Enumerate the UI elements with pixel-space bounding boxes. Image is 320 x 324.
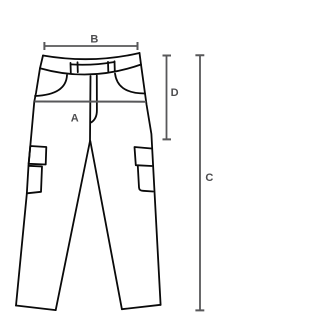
right cargo pocket body (138, 166, 153, 192)
dimension line D (166, 56, 168, 140)
right outer seam (140, 53, 161, 305)
svg-text:A: A (71, 113, 79, 125)
left front pocket curve (35, 75, 67, 96)
waistband top edge (43, 53, 140, 59)
waistband bottom edge (40, 65, 141, 75)
right cargo pocket flap (135, 147, 152, 166)
left cargo pocket body (27, 166, 42, 194)
svg-text:B: B (90, 33, 98, 45)
svg-text:C: C (205, 172, 213, 184)
left belt loop (71, 62, 78, 73)
left outer seam (16, 56, 43, 306)
dimension line A (34, 101, 146, 103)
right inseam (90, 141, 122, 309)
center front seam (89, 76, 92, 141)
svg-text:D: D (171, 87, 179, 99)
right front pocket curve (115, 74, 145, 94)
dimension line B (44, 45, 137, 47)
right belt loop (108, 61, 115, 71)
dimension line C (199, 55, 201, 310)
left cargo pocket flap (29, 146, 47, 165)
left inseam (56, 141, 90, 310)
left hem (16, 306, 56, 311)
right hem (122, 305, 161, 309)
waistband mid seam between loops (71, 62, 115, 65)
fly J-stitch (91, 76, 97, 123)
